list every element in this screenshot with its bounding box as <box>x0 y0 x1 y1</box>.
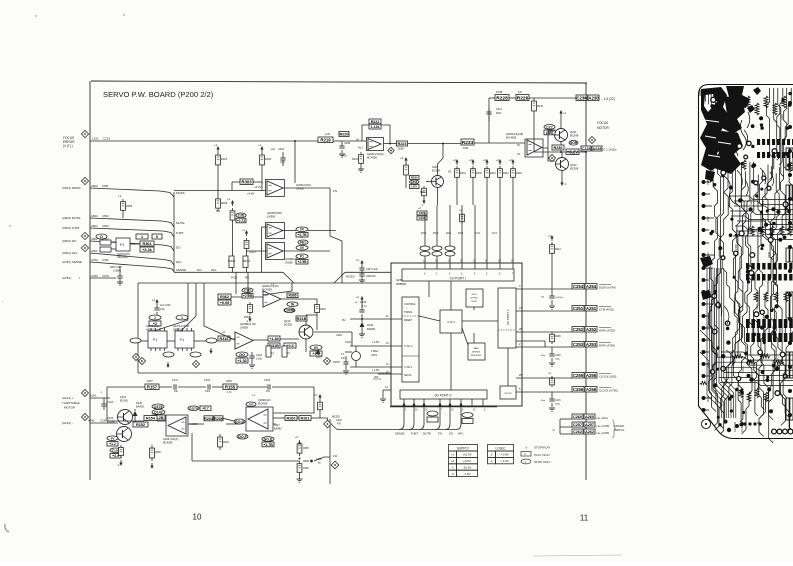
svg-text:0.33u: 0.33u <box>256 358 263 361</box>
svg-text:MOTOR: MOTOR <box>597 126 610 130</box>
svg-text:P-BIT: P-BIT <box>176 231 184 235</box>
svg-text:BC638: BC638 <box>120 400 128 403</box>
svg-text:A241: A241 <box>90 394 97 398</box>
port0 extra stubs <box>471 399 473 407</box>
svg-text:R206: R206 <box>214 417 223 421</box>
wire row P-BIT <box>90 228 174 237</box>
pcb trace right <box>784 88 787 170</box>
connector row C262 (-2+ (A780) <box>560 433 572 435</box>
pcb donut pads <box>744 155 748 159</box>
capacitor C211 <box>488 108 490 112</box>
collector Q231 up <box>560 116 562 128</box>
svg-text:+10.5V: +10.5V <box>462 453 471 457</box>
wire <box>489 97 495 99</box>
jumper ovals port0 <box>427 411 438 416</box>
svg-text:R302: R302 <box>762 200 765 206</box>
diamond D267 <box>324 358 331 365</box>
feedback rail top <box>145 384 159 390</box>
cpu internal wires <box>419 316 440 321</box>
connector row C256 A256 CLOCK (A790) <box>516 391 572 393</box>
svg-text:A501: A501 <box>91 249 98 253</box>
wire SEI <box>378 373 402 375</box>
wire to Q209 <box>248 423 276 425</box>
svg-text:GOR: GOR <box>570 141 578 145</box>
bus drop PCB <box>235 272 237 283</box>
svg-text:2.2n: 2.2n <box>342 154 348 158</box>
svg-text:C30A: C30A <box>411 180 418 184</box>
wire op-amp1 out <box>283 187 330 189</box>
svg-text:A785: A785 <box>91 274 98 278</box>
svg-text:A253: A253 <box>586 342 597 347</box>
svg-text:C208 47u: C208 47u <box>366 276 377 278</box>
svg-text:C782: C782 <box>102 258 109 262</box>
svg-text:MERACH: MERACH <box>777 357 780 368</box>
svg-text:R233: R233 <box>756 304 759 310</box>
svg-text:..V: ..V <box>524 446 528 450</box>
svg-text:(-2+ (A780): (-2+ (A780) <box>596 424 609 428</box>
wire to C230 A230 <box>529 97 586 99</box>
wire <box>90 422 118 424</box>
svg-text:C211: C211 <box>760 124 763 130</box>
label oval 0V <box>296 227 308 232</box>
ic Q250 M58840 CPU outline <box>391 263 522 406</box>
resistor R256 <box>151 445 153 448</box>
cpu CPU box <box>440 310 462 333</box>
pcb copper blob C <box>705 170 715 181</box>
svg-text:+2.5B: +2.5B <box>297 260 307 264</box>
svg-text:MUTE: MUTE <box>423 431 431 435</box>
capacitor row DATA <box>551 347 553 354</box>
svg-text:INT: INT <box>374 375 379 379</box>
legend PLAY ONLY <box>521 452 531 457</box>
resistor R268 row <box>551 332 553 334</box>
cpu RAM box <box>468 343 485 360</box>
svg-text:C205: C205 <box>735 244 738 250</box>
svg-text:R256: R256 <box>155 451 161 454</box>
pcb band connect traces <box>747 328 749 333</box>
svg-text:MCES: MCES <box>346 275 355 279</box>
connector labels C230 A230 <box>576 95 587 101</box>
svg-text:R345: R345 <box>724 114 727 120</box>
frame right border <box>585 83 587 480</box>
pcb copper pour blob B <box>711 130 743 174</box>
connector row C260 (-2+ (A61) <box>560 418 572 420</box>
pcb bottom left pads <box>727 428 731 432</box>
pcb resistor silk <box>784 292 788 302</box>
svg-text:+1: +1 <box>563 111 567 115</box>
svg-text:+2: +2 <box>451 459 455 463</box>
resistor R154 <box>144 416 157 421</box>
svg-text:R234: R234 <box>460 172 466 175</box>
svg-text:0V: 0V <box>448 170 452 174</box>
cpu I/O PORT 1 box <box>402 269 514 281</box>
svg-text:MOTOR: MOTOR <box>64 406 76 410</box>
svg-text:R154: R154 <box>146 417 156 421</box>
svg-text:MCES: MCES <box>176 191 185 195</box>
resistor R155 <box>223 384 237 390</box>
svg-text:+2: +2 <box>400 156 404 160</box>
connector diamond <box>589 137 596 144</box>
svg-text:+5.2V: +5.2V <box>254 185 262 189</box>
svg-text:600n: 600n <box>496 112 502 115</box>
svg-text:+1.52: +1.52 <box>237 359 247 363</box>
svg-text:RAM: RAM <box>474 347 479 350</box>
pcb diagonal pair <box>700 330 712 370</box>
pcb trace right <box>767 88 773 180</box>
wire down from focus net <box>294 141 296 183</box>
svg-text:RESET: RESET <box>404 319 413 322</box>
svg-text:LM308: LM308 <box>267 215 275 219</box>
wire op-amp to bases <box>543 131 554 148</box>
pcb right edge pads <box>788 101 792 105</box>
svg-text:R233: R233 <box>462 140 474 146</box>
svg-text:GO,F: GO,F <box>238 435 248 439</box>
svg-text:C3D: C3D <box>238 214 245 218</box>
svg-text:R303: R303 <box>241 180 252 185</box>
svg-text:GO: GO <box>239 353 245 357</box>
connector row C251 A251 CTM (A751) <box>516 310 572 312</box>
wire <box>253 339 268 341</box>
svg-text:≈ 0.8V: ≈ 0.8V <box>500 453 508 457</box>
bus rail horizontal <box>174 271 283 273</box>
svg-text:R228: R228 <box>781 114 784 120</box>
svg-text:C220: C220 <box>345 340 352 344</box>
connector diamond focus error <box>81 130 88 137</box>
svg-text:47p: 47p <box>341 357 346 360</box>
svg-text:FC1: FC1 <box>492 231 497 235</box>
svg-text:BR210: BR210 <box>243 261 251 263</box>
svg-text:C209: C209 <box>360 300 367 304</box>
svg-text:R219: R219 <box>750 199 753 205</box>
svg-text:R365: R365 <box>126 204 133 208</box>
port0 curved drops to bus <box>399 407 404 430</box>
pcb resistor silk <box>733 354 743 358</box>
svg-text:C504: C504 <box>102 214 109 218</box>
svg-text:R301: R301 <box>728 202 731 208</box>
connector diamond DO <box>81 232 88 239</box>
svg-text:BYTES: BYTES <box>470 298 478 300</box>
connector row C254 A254 DLEN (A794) <box>516 288 572 290</box>
svg-text:Q375: Q375 <box>154 405 163 409</box>
wire to C228 <box>561 151 586 153</box>
svg-text:A254: A254 <box>586 284 597 289</box>
svg-text:C147: C147 <box>154 411 163 415</box>
diamond F10 <box>331 461 339 469</box>
svg-text:R202: R202 <box>352 158 359 161</box>
connector diamond MCES <box>81 177 88 184</box>
label ovals Q154 area <box>107 436 118 441</box>
svg-text:R243: R243 <box>503 172 509 175</box>
svg-text:R222: R222 <box>371 120 380 124</box>
pcb right edge dark streaks <box>786 148 793 170</box>
wire out <box>311 417 322 419</box>
svg-text:BAR82: BAR82 <box>136 406 145 409</box>
svg-text:STOP ONLY: STOP ONLY <box>534 460 551 464</box>
pcb trace <box>713 164 721 430</box>
svg-text:⊥: ⊥ <box>78 276 81 280</box>
boxes left of opamp <box>133 422 148 427</box>
flip-flop Q2075 HEF4025 A <box>149 315 161 320</box>
svg-text:Q206(1/2)(3A): Q206(1/2)(3A) <box>367 152 384 156</box>
svg-text:R268: R268 <box>555 336 561 338</box>
svg-text:R364: R364 <box>320 308 326 311</box>
svg-text:HFL: HFL <box>458 431 464 435</box>
svg-text:R261: R261 <box>300 417 309 421</box>
svg-text:(-2+ (A61): (-2+ (A61) <box>596 416 608 420</box>
pcb mid snake traces <box>722 168 774 205</box>
wire into FF A <box>154 283 188 331</box>
svg-text:X-TAL 1: X-TAL 1 <box>404 366 413 369</box>
wire <box>141 340 148 342</box>
pcb ic footprint row 3 dark band <box>746 319 750 328</box>
pcb resistor silk <box>760 354 770 358</box>
pcb ic footprint row 2 <box>746 263 749 270</box>
svg-text:RC2: RC2 <box>458 231 464 235</box>
svg-text:L505: L505 <box>102 184 109 188</box>
svg-text:(A141) +: (A141) + <box>62 396 74 400</box>
svg-text:C218: C218 <box>264 379 271 382</box>
svg-text:C228: C228 <box>336 334 342 337</box>
svg-text:ROM: ROM <box>471 301 476 303</box>
wire to op-amp <box>474 142 525 144</box>
svg-text:I/O PORT 0: I/O PORT 0 <box>435 394 452 398</box>
svg-text:C253: C253 <box>573 342 584 347</box>
label ovals C147 <box>152 410 165 415</box>
resistor boxes mid <box>204 416 213 421</box>
wire <box>345 351 352 353</box>
wire to R233 <box>408 143 462 145</box>
svg-text:C262: C262 <box>573 430 582 434</box>
pcb corner traces <box>699 90 701 96</box>
svg-text:C255: C255 <box>573 373 584 378</box>
label boxes at Q209 <box>246 402 256 407</box>
svg-text:DATA (A790): DATA (A790) <box>599 344 615 348</box>
resistor R363 <box>249 302 251 304</box>
wire <box>548 148 555 161</box>
ovals below flip-flops <box>130 338 141 343</box>
emitter Q232 down <box>561 171 563 180</box>
pcb ic footprint row 1 <box>757 139 760 145</box>
output node <box>560 142 562 152</box>
pcb resistor silk <box>788 226 792 236</box>
svg-text:RC1: RC1 <box>446 231 452 235</box>
wire <box>232 181 240 183</box>
boxes right of Q205B <box>268 336 280 341</box>
svg-text:RC0: RC0 <box>433 231 439 235</box>
svg-text:F10: F10 <box>333 455 338 458</box>
wire <box>217 168 219 196</box>
connector row C257 (-2+ (A780) <box>560 426 572 428</box>
svg-text:(A524) MCES: (A524) MCES <box>62 186 81 190</box>
wire row MCES <box>90 188 174 197</box>
svg-text:R155: R155 <box>226 380 232 383</box>
diamond output Q206 <box>388 147 394 153</box>
svg-text:M58840: M58840 <box>396 282 407 286</box>
svg-text:R226: R226 <box>517 96 529 102</box>
connector diamond A142 <box>82 414 89 421</box>
pcb trace right <box>774 88 783 169</box>
wire <box>231 296 263 298</box>
wire <box>308 230 336 232</box>
svg-text:R306B: R306B <box>228 261 235 263</box>
resistor R233 <box>461 139 474 145</box>
svg-text:BAR82: BAR82 <box>274 428 282 431</box>
pcb trace <box>769 162 786 420</box>
svg-text:+1: +1 <box>214 143 218 147</box>
table SUPPLY <box>449 445 478 452</box>
svg-text:R309: R309 <box>221 201 228 205</box>
table LOGIC <box>488 445 514 452</box>
svg-text:BC548: BC548 <box>432 169 440 173</box>
svg-text:aa? C203: aa? C203 <box>160 304 171 307</box>
pcb resistor silk <box>780 226 784 236</box>
wire Q242 out <box>314 331 352 333</box>
svg-text:SENSE: SENSE <box>176 268 186 272</box>
svg-text:(A503) P-BIT: (A503) P-BIT <box>62 226 80 230</box>
svg-text:A242: A242 <box>88 419 95 423</box>
svg-text:(3B): (3B) <box>546 131 554 135</box>
svg-text:1: 1 <box>154 316 156 320</box>
svg-text:Q208(1/2)(X8): Q208(1/2)(X8) <box>506 132 523 136</box>
pcb resistor silk <box>742 160 746 170</box>
svg-text:(A781) SENSE: (A781) SENSE <box>62 260 82 264</box>
pcb blob cluster E <box>747 87 761 113</box>
pcb resistor silk <box>746 360 756 364</box>
pcb trace <box>769 173 780 443</box>
wire driver rows <box>559 419 561 434</box>
svg-text:48WRDS: 48WRDS <box>472 352 481 354</box>
wire down to Q208 input <box>106 387 108 421</box>
svg-text:PLAY ONLY: PLAY ONLY <box>534 453 550 457</box>
pcb resistor silk <box>774 292 778 302</box>
svg-text:SUPPLY: SUPPLY <box>457 447 470 451</box>
label ovals op3 <box>296 245 308 250</box>
svg-text:BAR82: BAR82 <box>367 327 376 331</box>
svg-text:+5.6V: +5.6V <box>463 459 471 463</box>
svg-text:11: 11 <box>580 514 589 523</box>
svg-text:1: 1 <box>141 235 143 239</box>
svg-text:GO,D: GO,D <box>264 438 273 442</box>
flip-flop Q2070 HEF4025 B <box>176 315 188 320</box>
pcb horizontal fan traces upper <box>729 196 793 200</box>
svg-text:– 1-6 (22): – 1-6 (22) <box>601 97 615 101</box>
svg-text:+0.72: +0.72 <box>237 219 246 223</box>
bus drop RE <box>247 272 249 283</box>
wire feedback <box>381 125 390 143</box>
wire <box>533 114 535 152</box>
svg-text:0V.2: 0V.2 <box>358 147 364 150</box>
resistor R156 <box>120 445 122 447</box>
pcb trace <box>734 171 752 425</box>
svg-text:R223: R223 <box>397 142 406 146</box>
pcb trace <box>719 172 743 429</box>
svg-text:BC548: BC548 <box>570 134 579 138</box>
resistor R223 inline <box>397 141 408 146</box>
svg-text:R244: R244 <box>555 248 561 251</box>
svg-text:OSC/OP: OSC/OP <box>504 393 512 395</box>
svg-text:R155: R155 <box>225 385 236 390</box>
wire xtal1 <box>350 366 402 368</box>
wire <box>157 420 166 422</box>
pcb blob top edge D <box>726 86 750 108</box>
op-amp Q305B (4X6) LM358 <box>266 223 285 239</box>
wire <box>303 460 309 462</box>
svg-text:CTM (A751): CTM (A751) <box>599 308 614 312</box>
svg-text:Q242: Q242 <box>284 319 291 323</box>
resistor R240 <box>533 98 535 101</box>
svg-text:C215: C215 <box>204 379 211 382</box>
svg-text:D4367: D4367 <box>333 361 341 364</box>
svg-text:1: 1 <box>181 316 183 320</box>
connector diamond A141 <box>82 390 89 397</box>
pcb trace <box>724 162 750 422</box>
pcb resistor silk <box>788 162 792 172</box>
wire Q203 out <box>281 298 317 300</box>
wire row MUTE <box>90 218 174 227</box>
wire <box>159 386 172 388</box>
svg-text:C251: C251 <box>573 306 584 311</box>
pcb resistor silk <box>747 392 751 402</box>
wire xtal2 <box>350 345 402 347</box>
wire <box>253 181 262 183</box>
wire <box>283 230 296 232</box>
pcb resistor silk <box>754 292 758 302</box>
cpu I/O PORT 0 box <box>400 390 487 399</box>
svg-text:+4.6V: +4.6V <box>247 192 255 196</box>
resistor R203 <box>219 434 221 437</box>
svg-text:HFL: HFL <box>176 260 182 264</box>
svg-text:,: , <box>2 298 3 304</box>
svg-text:C305: C305 <box>344 141 351 145</box>
svg-text:R31B: R31B <box>297 317 307 321</box>
resistor R219 <box>318 137 333 143</box>
pcb trace <box>770 167 785 425</box>
wire to op-amp <box>342 140 367 142</box>
svg-text:16u: 16u <box>174 390 179 393</box>
svg-text:A257: A257 <box>585 423 594 427</box>
pcb resistor silk <box>773 103 777 115</box>
svg-text:P1: P1 <box>153 338 157 342</box>
svg-text:R157: R157 <box>147 385 158 390</box>
svg-text:P-BIT: P-BIT <box>411 431 418 435</box>
wire MCES drop <box>263 283 292 295</box>
wire <box>111 248 116 250</box>
resistor R226 <box>516 95 529 101</box>
connector row C252 A252 DATA (A752) <box>516 331 572 333</box>
svg-text:FN: FN <box>333 189 337 193</box>
wire <box>111 241 116 243</box>
svg-text:+2: +2 <box>118 194 122 198</box>
svg-text:C305B: C305B <box>285 309 296 313</box>
boxes near Q242 <box>296 316 307 321</box>
svg-text:C228: C228 <box>581 147 590 151</box>
wire row DO <box>90 241 174 251</box>
svg-text:FN: FN <box>438 431 442 435</box>
svg-text:4.7u: 4.7u <box>362 305 367 308</box>
wire MCES row to op-amp1 <box>174 190 267 192</box>
pcb resistor silk <box>764 292 768 302</box>
op-amp Q305C LM358 <box>266 243 285 260</box>
svg-text:0.025V: 0.025V <box>190 423 198 426</box>
label ovals above opamp <box>188 406 199 411</box>
svg-text:A252: A252 <box>586 327 597 332</box>
svg-text:(-2+ (A780): (-2+ (A780) <box>596 431 609 435</box>
svg-text:(A501) HFL: (A501) HFL <box>62 251 78 255</box>
label ovals C309 <box>236 213 246 218</box>
svg-text:(A502) DO: (A502) DO <box>62 239 77 243</box>
bias boxes <box>544 125 555 130</box>
cpu CONTROL TIMING box <box>402 297 419 382</box>
